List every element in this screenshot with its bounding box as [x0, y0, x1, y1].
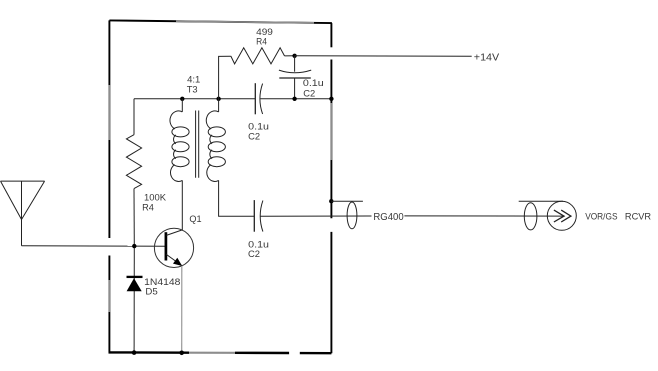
svg-text:Q1: Q1 [189, 213, 201, 224]
coax shield symbol left [347, 202, 357, 229]
shield enclosure left edge lower gray portion [108, 280, 110, 312]
junction primary top [180, 97, 184, 101]
transistor Q1 circle [154, 228, 193, 267]
connector chevron 1 [554, 210, 564, 222]
antenna [1, 181, 45, 246]
junction top wire at shield [329, 97, 333, 101]
junction emitter to ground rail [179, 351, 184, 356]
wire secondary bottom to C2 output [219, 180, 255, 216]
transistor Q1 collector [166, 180, 182, 235]
wire coax braid stub [331, 200, 363, 202]
svg-text:+14V: +14V [474, 52, 500, 63]
shield enclosure bottom edge right dash [300, 352, 332, 355]
svg-text:VOR/GS: VOR/GS [585, 211, 617, 222]
transformer T3 primary loop 3 [172, 157, 189, 167]
wire antenna to base node [22, 245, 135, 247]
svg-text:RG400: RG400 [373, 212, 404, 223]
svg-text:C2: C2 [248, 131, 260, 142]
transformer T3 secondary lead [218, 99, 220, 112]
svg-text:C2: C2 [303, 87, 315, 98]
shield enclosure left edge gray portion [108, 85, 110, 140]
svg-text:R4: R4 [142, 202, 154, 213]
transformer T3 secondary loop 3 [208, 157, 225, 167]
shield enclosure right edge middle dash [330, 60, 332, 219]
wire Q1 emitter to ground rail [181, 266, 183, 353]
wire base node to diode and ground [133, 246, 135, 353]
transformer T3 secondary winding [206, 111, 218, 181]
shield enclosure right edge top dash [330, 23, 332, 47]
wire top node (y=99) left of C2 [134, 98, 255, 100]
shield enclosure bottom edge middle segment [235, 352, 289, 355]
transformer T3 secondary loop 1 [208, 127, 225, 137]
capacitor C2 series top straight plate [254, 83, 256, 114]
wire C2 output to RG400 [260, 215, 371, 217]
shield enclosure top edge [109, 20, 332, 23]
shield enclosure left edge upper dash [108, 20, 110, 238]
resistor R4 100K body [126, 135, 141, 189]
capacitor C2 bypass top lead [294, 56, 296, 72]
transistor Q1 emitter arrow [173, 258, 182, 266]
junction bypass bottom [292, 97, 296, 101]
transformer T3 primary lead [181, 99, 183, 112]
transformer T3 secondary loop 2 [208, 142, 225, 152]
resistor R4 100K lead to base node [133, 189, 135, 247]
transformer T3 primary winding [170, 111, 182, 181]
resistor R4 100K lead from top wire [133, 99, 135, 135]
shield enclosure bottom edge gray segment [189, 352, 235, 354]
junction diode to ground rail [132, 350, 137, 355]
transistor Q1 base bar [165, 232, 168, 260]
junction shield to coax braid [329, 199, 333, 203]
shield enclosure bottom edge left segment [109, 351, 190, 354]
svg-text:R4: R4 [256, 35, 267, 46]
wire base node to Q1 base [134, 245, 166, 247]
junction R4 / C2 bypass / +14V [292, 54, 296, 58]
connector circle VOR/GS RCVR [547, 201, 576, 230]
connector chevron 2 [561, 210, 571, 222]
svg-text:C2: C2 [248, 248, 260, 259]
svg-text:T3: T3 [187, 83, 198, 94]
svg-text:D5: D5 [145, 285, 157, 296]
transistor Q1 emitter [166, 254, 182, 265]
shield enclosure right edge bottom dash [330, 232, 332, 353]
resistor R4 499 lead down to node [219, 56, 231, 99]
diode D5 cathode bar [127, 276, 143, 278]
resistor R4 499 body [231, 48, 285, 64]
resistor R4 499 right lead [285, 55, 295, 57]
coax shield symbol right [524, 203, 537, 230]
transformer T3 core [196, 111, 199, 178]
junction secondary top [216, 97, 220, 101]
junction base node [132, 244, 136, 248]
wire coax braid stub right [519, 200, 563, 202]
capacitor C2 bypass curved plate [279, 70, 311, 73]
capacitor C2 output curved plate [260, 201, 263, 232]
transformer T3 primary loop 1 [172, 127, 189, 137]
shield enclosure left edge lower dash [108, 256, 110, 353]
diode D5 triangle [127, 278, 142, 291]
wire top node (y=99) right of C2 [260, 98, 331, 100]
wire RG400 to connector [404, 215, 564, 217]
wire +14V [295, 55, 472, 58]
capacitor C2 bypass bottom lead [294, 78, 296, 99]
capacitor C2 series top curved plate [260, 84, 263, 114]
capacitor C2 bypass straight plate [279, 77, 311, 79]
svg-text:RCVR: RCVR [625, 211, 651, 222]
transformer T3 primary loop 2 [172, 142, 189, 152]
shield enclosure right edge gray portion [330, 103, 332, 160]
shield enclosure top edge gray portion [176, 21, 314, 23]
capacitor C2 output straight plate [253, 200, 255, 232]
